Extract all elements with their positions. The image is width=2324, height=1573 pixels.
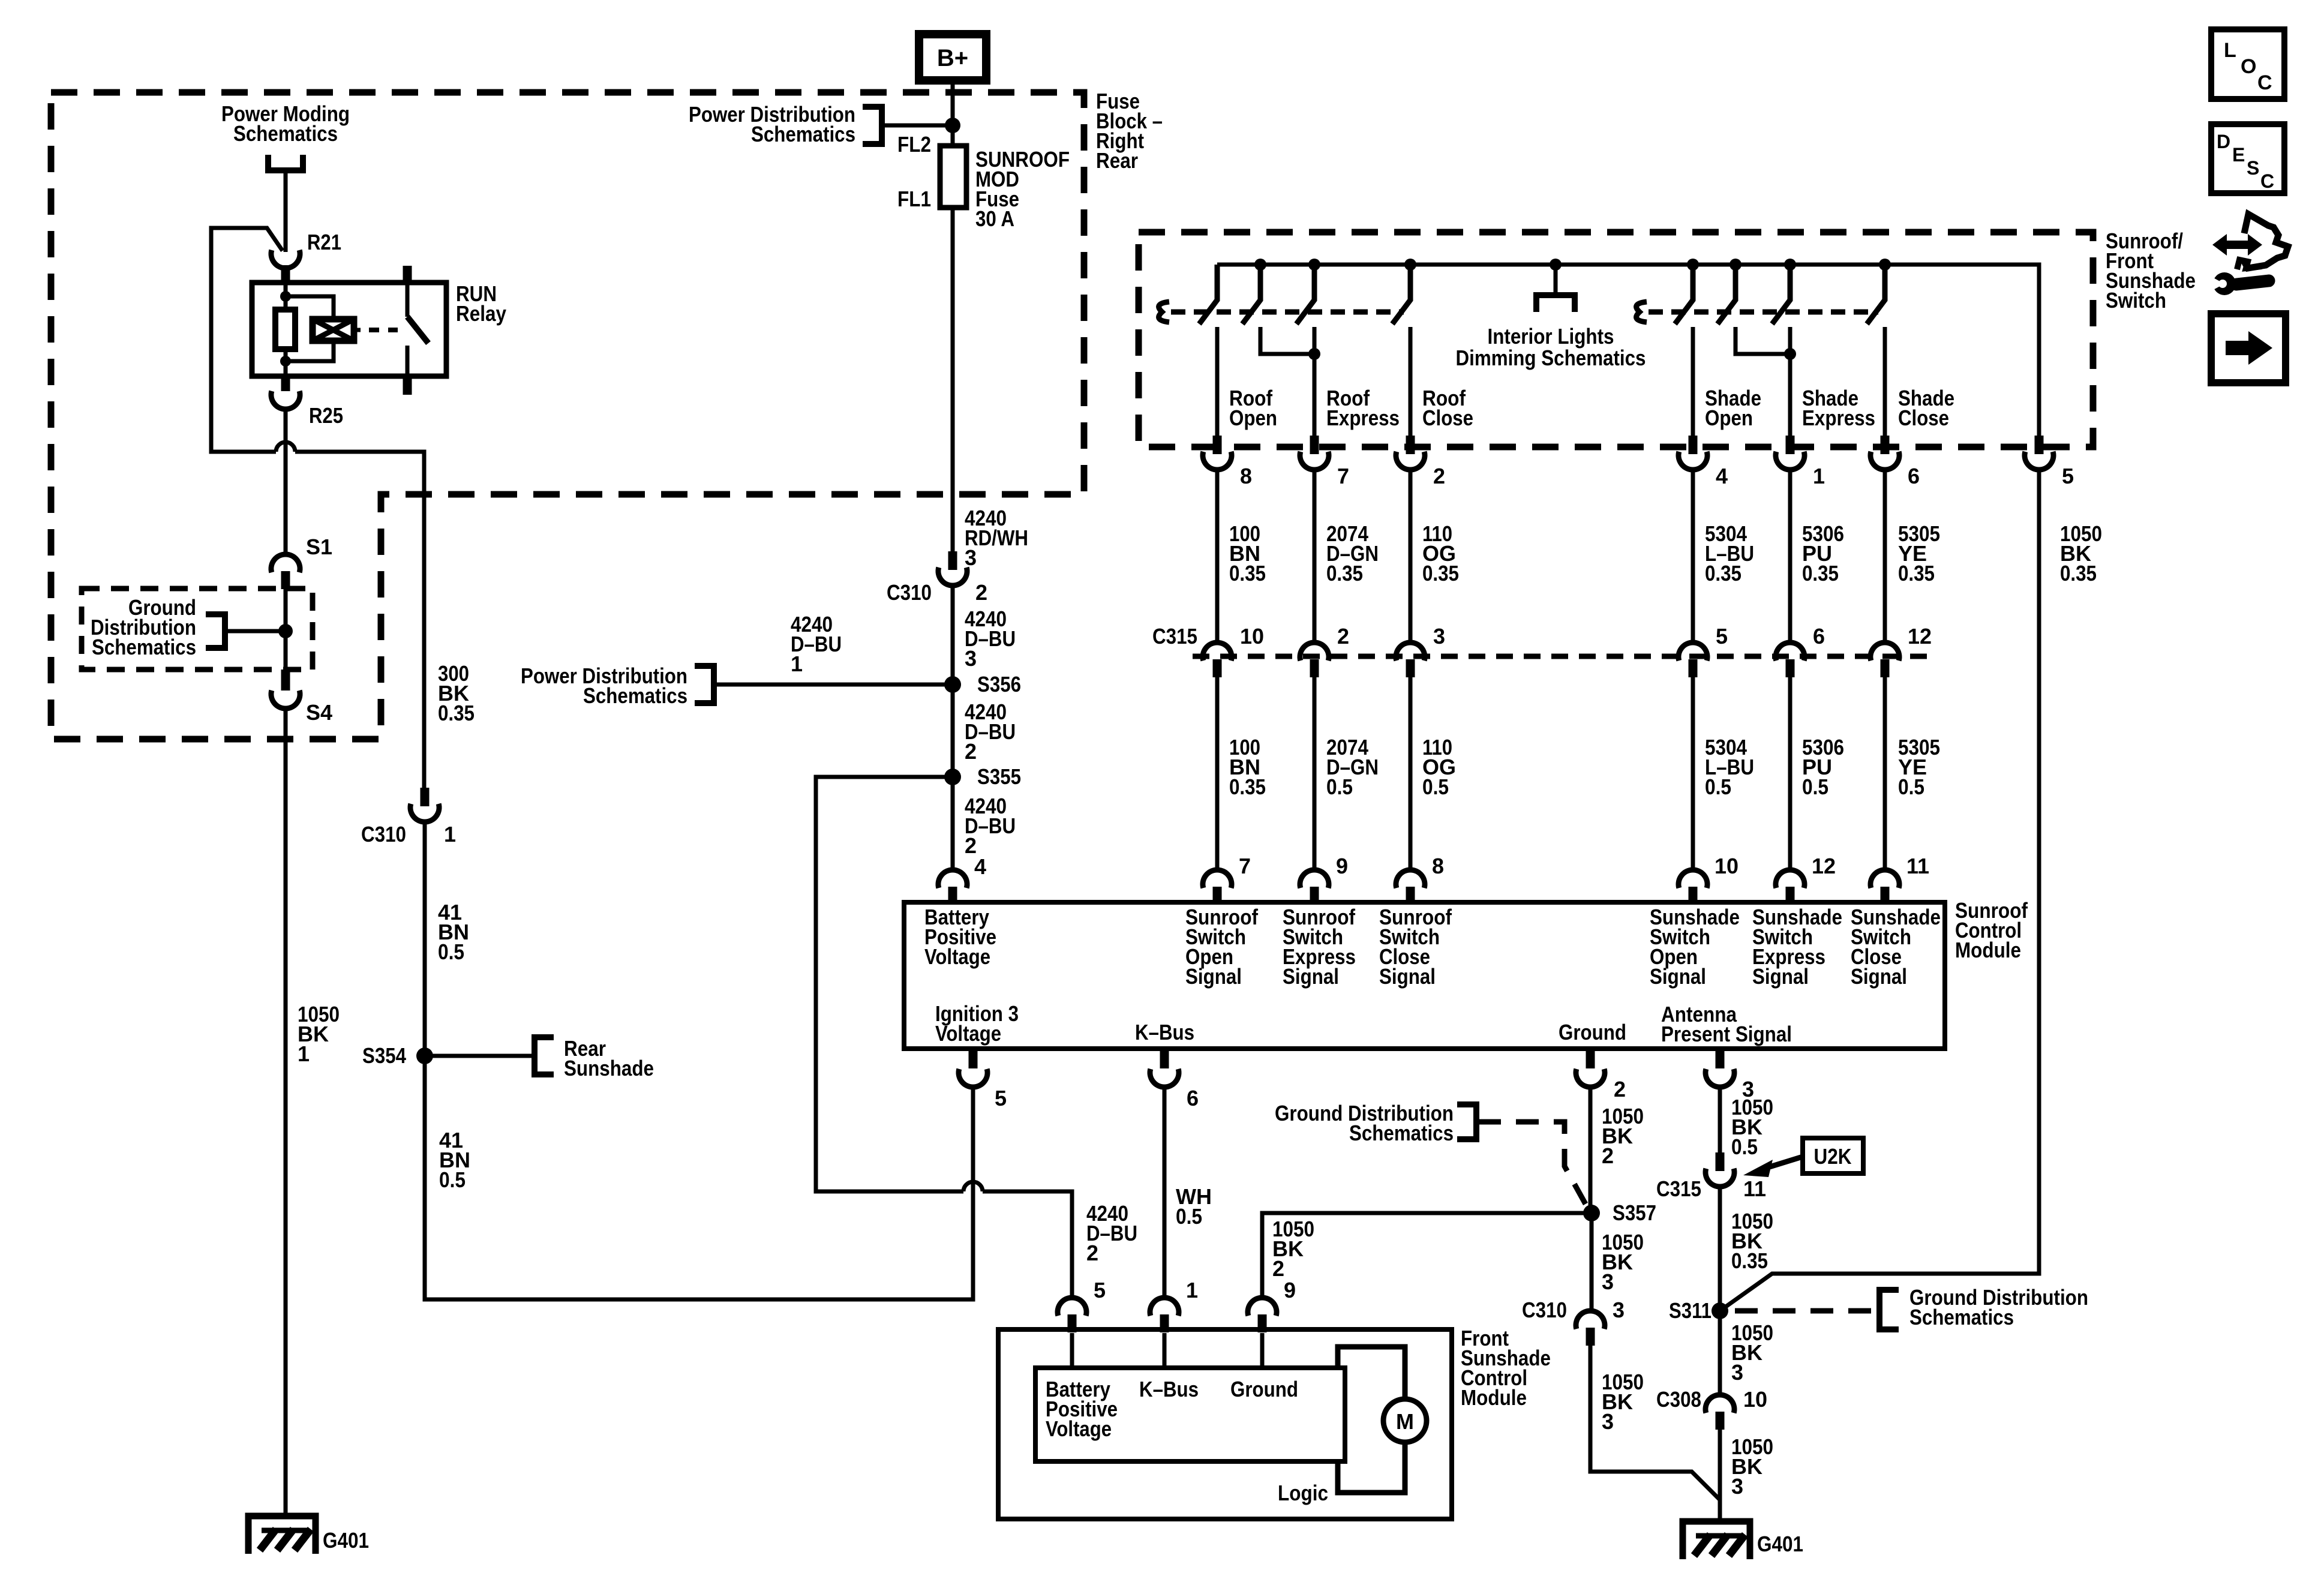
module pin label Sunshade Express <box>1752 905 1842 989</box>
wire label 2074 D–GN 0.5 (lower) <box>1326 735 1379 799</box>
svg-text:Schematics: Schematics <box>1349 1121 1454 1145</box>
svg-text:6: 6 <box>1908 464 1920 488</box>
svg-text:5: 5 <box>1094 1278 1106 1302</box>
svg-text:0.5: 0.5 <box>438 939 464 964</box>
switch position label Shade Close <box>1898 386 1954 430</box>
module pin 7 <box>1203 854 1251 905</box>
svg-text:7: 7 <box>1337 464 1349 488</box>
wire R25 to S1 <box>284 407 288 554</box>
module pin label Sunshade Close <box>1851 905 1941 989</box>
svg-text:10: 10 <box>1743 1387 1767 1412</box>
svg-text:Voltage: Voltage <box>924 944 990 969</box>
svg-text:11: 11 <box>1743 1176 1766 1201</box>
svg-text:0.35: 0.35 <box>438 701 475 725</box>
wire shade close contact down <box>1883 327 1887 436</box>
wire label 1050 BK 3 (left ground leg) <box>1602 1370 1644 1434</box>
roof switch contact dashed line <box>1171 310 1404 315</box>
wire switch pin 5 down right side <box>1720 471 2039 1311</box>
svg-text:C: C <box>2257 71 2272 94</box>
switch blade shade express B <box>1772 265 1790 324</box>
switch blade roof close <box>1392 265 1410 324</box>
connector C315 pin 2 <box>1300 624 1349 677</box>
svg-text:S356: S356 <box>977 672 1021 697</box>
wire label 300 BK 0.35 <box>438 661 475 725</box>
icon DESC box <box>2211 124 2284 193</box>
wire label 110 OG 0.35 <box>1422 521 1459 586</box>
wire roof open contact down <box>1215 327 1220 436</box>
wire switch to C315 at 2822 <box>1691 471 1695 643</box>
svg-text:K–Bus: K–Bus <box>1135 1020 1194 1044</box>
wire label WH 0.5 <box>1176 1184 1212 1229</box>
svg-text:S4: S4 <box>306 700 332 725</box>
svg-text:12: 12 <box>1908 624 1932 649</box>
icon component-view door with arrow and wrench <box>2209 214 2288 295</box>
wire label 4240 D-BU 1 <box>791 612 842 676</box>
svg-text:O: O <box>2241 55 2256 78</box>
wire Ground pin 2 to S357 <box>1589 1086 1593 1213</box>
wire label 1050 BK 2 (to front module) <box>1272 1217 1314 1281</box>
splice S355 <box>944 764 1021 789</box>
wire label 1050 BK 3 (below S311) <box>1731 1320 1773 1385</box>
switch pin 5 <box>2025 436 2074 488</box>
relay pin R25 <box>271 376 343 428</box>
wire shade express jog <box>1736 327 1790 354</box>
roof contact line harness connector squiggle <box>1159 302 1169 322</box>
wire label 5305 YE 0.35 <box>1898 521 1940 586</box>
svg-text:1: 1 <box>1186 1278 1198 1302</box>
Ground Distribution Schematics reference (middle) <box>1275 1101 1589 1209</box>
svg-text:Signal: Signal <box>1185 964 1242 989</box>
front module internal pin wires <box>1072 1333 1262 1368</box>
module pin label Antenna Present Signal <box>1661 1002 1792 1046</box>
RUN Relay label <box>456 281 506 326</box>
module pin 11 <box>1870 854 1929 905</box>
wire S311 to C308 <box>1718 1311 1722 1396</box>
svg-text:3: 3 <box>965 545 977 570</box>
wire S357 to C310 pin 3 <box>1590 1213 1594 1312</box>
relay switch fixed contacts <box>403 266 412 395</box>
Power Distribution Schematics reference (middle) <box>521 664 953 708</box>
svg-text:0.35: 0.35 <box>1898 561 1935 586</box>
Ground Distribution Schematics reference (left) <box>91 595 286 659</box>
svg-text:Sunshade: Sunshade <box>564 1056 654 1080</box>
svg-text:10: 10 <box>1240 624 1264 649</box>
Sunroof Control Module label <box>1955 898 2028 962</box>
wire from Power Moding reference to relay R21 <box>284 170 288 252</box>
svg-text:Ground: Ground <box>1230 1377 1298 1401</box>
svg-text:0.5: 0.5 <box>1705 775 1731 799</box>
svg-text:9: 9 <box>1336 854 1348 878</box>
wire label 2074 D–GN 0.35 <box>1326 521 1379 586</box>
svg-text:Express: Express <box>1802 406 1875 430</box>
svg-text:10: 10 <box>1715 854 1739 878</box>
wire roof express jog <box>1260 327 1314 354</box>
module Sunroof Control Module box <box>904 902 1945 1049</box>
svg-text:0.35: 0.35 <box>1326 561 1363 586</box>
connector C315 pin 11 <box>1656 1152 1766 1201</box>
wire label 4240 D-BU 3 <box>965 607 1016 671</box>
wire switch to C315 at 2984 <box>1788 471 1792 643</box>
svg-text:1: 1 <box>1813 464 1825 488</box>
relay node bottom <box>280 356 291 367</box>
power node B+ <box>919 34 986 80</box>
connector C308 pin 10 <box>1656 1387 1767 1430</box>
svg-text:C315: C315 <box>1656 1176 1701 1201</box>
svg-text:9: 9 <box>1284 1278 1296 1302</box>
svg-text:Express: Express <box>1326 406 1400 430</box>
wire label 41 BN 0.5 <box>438 900 469 964</box>
svg-text:Signal: Signal <box>1283 964 1339 989</box>
svg-text:Voltage: Voltage <box>935 1021 1001 1046</box>
Sunroof/Front Sunshade Switch label <box>2106 229 2196 313</box>
wire S354 to ignition 3 voltage pin 5 <box>425 1056 973 1299</box>
node bus 2593 <box>1550 259 1562 271</box>
svg-text:C310: C310 <box>361 822 406 846</box>
wire C308 to G401 <box>1718 1429 1722 1518</box>
svg-text:0.35: 0.35 <box>1705 561 1742 586</box>
svg-text:30 A: 30 A <box>975 206 1014 231</box>
switch blade shade open <box>1675 265 1693 324</box>
connector C315 pin 3 <box>1396 624 1445 677</box>
node ground distribution tap <box>278 624 293 638</box>
splice S357 <box>1583 1200 1656 1225</box>
front module logic box <box>1035 1368 1345 1461</box>
connector C315 pin 5 <box>1679 624 1728 677</box>
wire switch to C315 at 2191 <box>1313 471 1317 643</box>
wire hop to front module pin 5 <box>983 1191 1072 1299</box>
svg-text:5: 5 <box>2062 464 2074 488</box>
wire label 41 BN 0.5 (second) <box>439 1128 470 1192</box>
wire C315 to module at 2984 <box>1788 677 1792 871</box>
fuse terminal label FL2 <box>897 132 931 157</box>
relay switch blade <box>407 317 428 343</box>
svg-text:2: 2 <box>1337 624 1349 649</box>
wire fuse to C310 pin 2 <box>951 208 955 551</box>
svg-text:4: 4 <box>974 854 986 879</box>
wire label 1050 BK 0.35 (antenna ground) <box>1731 1209 1773 1273</box>
logic label Ground <box>1230 1377 1298 1401</box>
wire hop over pin5 wire at (1622,1986) <box>963 1182 983 1191</box>
connector C310 pin 2 <box>887 551 987 605</box>
svg-text:0.5: 0.5 <box>1898 775 1924 799</box>
module pin 9 <box>1300 854 1348 905</box>
svg-text:Relay: Relay <box>456 301 506 326</box>
Rear Sunshade reference <box>425 1036 654 1080</box>
switch position label Roof Open <box>1229 386 1277 430</box>
switch position label Shade Express <box>1802 386 1875 430</box>
svg-text:Switch: Switch <box>2106 288 2166 313</box>
wire S4 to G401 <box>284 706 288 1513</box>
module pin label K-Bus <box>1135 1020 1194 1044</box>
svg-text:5: 5 <box>995 1086 1007 1110</box>
splice S356 <box>944 672 1021 697</box>
splice S4 <box>271 670 332 725</box>
svg-text:Open: Open <box>1229 406 1277 430</box>
splice S1 <box>271 535 332 589</box>
module pin 10 <box>1679 854 1739 905</box>
svg-text:3: 3 <box>1433 624 1445 649</box>
svg-text:Schematics: Schematics <box>233 121 338 146</box>
switch position label Roof Express <box>1326 386 1400 430</box>
wire S1 to S4 <box>284 589 288 671</box>
svg-text:S354: S354 <box>362 1043 406 1068</box>
svg-text:G401: G401 <box>1757 1532 1803 1556</box>
svg-text:C308: C308 <box>1656 1387 1701 1412</box>
module pin 5 (Ignition 3 Voltage) <box>959 1049 1007 1110</box>
node bus 2101 <box>1254 259 1266 271</box>
fuse block / power moding dashed boundary <box>51 92 1084 739</box>
node roof express jog <box>1308 348 1320 360</box>
svg-text:2: 2 <box>1272 1256 1284 1281</box>
wire S356 to S355 <box>951 685 955 777</box>
node bus 2893 <box>1730 259 1742 271</box>
logic label Logic <box>1278 1481 1328 1505</box>
svg-text:FL2: FL2 <box>897 132 931 157</box>
module pin 4 <box>938 854 986 905</box>
svg-text:Close: Close <box>1898 406 1949 430</box>
wire C310-1 to S354 <box>423 821 427 1056</box>
switch position label Roof Close <box>1422 386 1473 430</box>
svg-text:Signal: Signal <box>1379 964 1436 989</box>
svg-text:Schematics: Schematics <box>1909 1305 2014 1329</box>
node bus 2191 <box>1308 259 1320 271</box>
node bus 2351 <box>1404 259 1416 271</box>
wire roof express contact down <box>1313 327 1317 436</box>
wire label 4240 D-BU 2 (to front module) <box>1086 1201 1137 1265</box>
wire S355 branch to front module pin 5 <box>816 777 963 1191</box>
svg-text:5: 5 <box>1716 624 1728 649</box>
svg-text:6: 6 <box>1187 1086 1199 1110</box>
sunroof/front sunshade switch dashed box <box>1139 232 2093 447</box>
wire label 1050 BK 1 <box>298 1002 340 1066</box>
wire C315 to module at 2351 <box>1409 677 1413 871</box>
relay node top <box>280 291 291 302</box>
svg-text:S311: S311 <box>1669 1298 1712 1323</box>
connector C310 pin 1 <box>361 788 456 846</box>
svg-text:U2K: U2K <box>1814 1144 1852 1169</box>
node bus 2822 <box>1687 259 1699 271</box>
svg-text:Voltage: Voltage <box>1046 1416 1112 1441</box>
svg-text:Signal: Signal <box>1752 964 1809 989</box>
switch pin 8 <box>1203 436 1252 488</box>
module pin label Sunroof Close <box>1379 905 1452 989</box>
wire label 5304 L–BU 0.5 (lower) <box>1705 735 1754 799</box>
switch blade shade express A <box>1718 265 1736 324</box>
svg-text:E: E <box>2232 144 2245 166</box>
svg-text:S1: S1 <box>306 535 332 559</box>
switch blade roof open <box>1199 265 1217 324</box>
svg-text:2: 2 <box>1602 1143 1614 1168</box>
wire switch to C315 at 2029 <box>1215 471 1220 643</box>
wire label 1050 BK 3 (below S357) <box>1602 1230 1644 1294</box>
svg-text:0.5: 0.5 <box>1326 775 1353 799</box>
wire B+ to fuse <box>951 80 955 146</box>
svg-text:Module: Module <box>1955 938 2021 962</box>
node S? power distribution tap <box>945 118 960 133</box>
connector C315 dashed line <box>1193 654 1938 659</box>
icon next-page arrow box <box>2211 314 2286 383</box>
module pin 3 (Antenna Present Signal) <box>1706 1049 1754 1101</box>
svg-text:12: 12 <box>1812 854 1836 878</box>
wire from hop to C310 pin 1 <box>295 452 424 788</box>
svg-text:8: 8 <box>1240 464 1252 488</box>
svg-text:6: 6 <box>1813 624 1825 649</box>
connector C315 pin 12 <box>1870 624 1932 677</box>
shade contact line harness connector squiggle <box>1637 302 1647 322</box>
module pin label Battery Positive Voltage <box>924 905 996 969</box>
svg-text:3: 3 <box>1731 1474 1743 1499</box>
svg-text:Present Signal: Present Signal <box>1661 1022 1792 1046</box>
wire label 100 BN 0.35 <box>1229 521 1266 586</box>
module pin label Sunroof Open <box>1185 905 1259 989</box>
module pin label Ground <box>1559 1020 1626 1044</box>
relay coil circuit wires <box>286 283 334 376</box>
wire shade open contact down <box>1691 327 1695 436</box>
wire label 1050 BK 0.35 <box>2060 521 2102 586</box>
connector C315 pin 6 <box>1776 624 1825 677</box>
switch pin 7 <box>1300 436 1349 488</box>
wire label 4240 D-BU 2 <box>965 700 1016 764</box>
node bus 3142 <box>1879 259 1891 271</box>
svg-text:Schematics: Schematics <box>92 635 196 659</box>
ground G401 (right) <box>1683 1521 1803 1559</box>
wire C315 to module at 2191 <box>1313 677 1317 871</box>
svg-text:0.5: 0.5 <box>1422 775 1449 799</box>
wire label 1050 BK 3 (to ground) <box>1731 1434 1773 1499</box>
relay RUN box <box>252 283 446 376</box>
wire switch to C315 at 2351 <box>1409 471 1413 643</box>
front module pin 1 <box>1150 1278 1198 1332</box>
fuse SUNROOF MOD 30A <box>940 146 966 208</box>
switch blade roof express B <box>1296 265 1314 324</box>
wire C315 to module at 3142 <box>1883 677 1887 871</box>
Interior Lights Dimming Schematics reference <box>1456 265 1646 370</box>
wire label 4240 RD/WH 3 <box>965 506 1028 570</box>
module pin 12 <box>1776 854 1836 905</box>
svg-text:Schematics: Schematics <box>583 683 687 708</box>
ground distribution dashed box <box>82 589 313 670</box>
wire label 1050 BK 0.5 <box>1731 1095 1773 1159</box>
wire label 100 BN 0.35 (lower) <box>1229 735 1266 799</box>
svg-text:2: 2 <box>965 739 977 764</box>
svg-text:3: 3 <box>1602 1269 1614 1294</box>
svg-text:0.5: 0.5 <box>1731 1134 1758 1159</box>
module pin label Sunshade Open <box>1650 905 1740 989</box>
switch pin 4 <box>1679 436 1728 488</box>
svg-text:0.35: 0.35 <box>1731 1248 1768 1273</box>
svg-text:0.35: 0.35 <box>2060 561 2097 586</box>
svg-text:L: L <box>2224 39 2236 62</box>
motor M <box>1383 1399 1427 1442</box>
svg-text:1: 1 <box>444 822 456 846</box>
svg-text:7: 7 <box>1239 854 1251 878</box>
svg-text:1: 1 <box>298 1041 310 1066</box>
svg-text:R25: R25 <box>309 403 343 428</box>
wire S357 to front module pin 9 <box>1262 1213 1592 1299</box>
Front Sunshade Control Module label <box>1461 1326 1551 1410</box>
wire K-Bus to front module pin 1 <box>1163 1086 1167 1299</box>
svg-text:C: C <box>2260 170 2274 192</box>
svg-text:3: 3 <box>1731 1360 1743 1385</box>
wire label 1050 BK 2 (module ground) <box>1602 1104 1644 1168</box>
svg-text:S355: S355 <box>977 764 1021 789</box>
svg-text:S357: S357 <box>1613 1200 1656 1225</box>
svg-text:8: 8 <box>1432 854 1444 878</box>
svg-text:0.35: 0.35 <box>1802 561 1839 586</box>
svg-text:K–Bus: K–Bus <box>1139 1377 1199 1401</box>
svg-text:2: 2 <box>975 580 987 605</box>
fuse value label <box>975 147 1070 231</box>
wire C315 to module at 2822 <box>1691 677 1695 871</box>
wire motor to logic (bottom) <box>1338 1442 1405 1493</box>
wire hop over vertical at (476,753) <box>276 442 295 452</box>
wire bypass branch from R21 node to Ignition feed <box>211 228 283 452</box>
switch pin 6 <box>1870 436 1920 488</box>
connector C315 label <box>1152 624 1197 649</box>
logic label Battery Positive Voltage <box>1046 1377 1118 1441</box>
svg-text:C310: C310 <box>1522 1298 1567 1322</box>
svg-text:1: 1 <box>791 652 803 676</box>
wire roof close contact down <box>1409 327 1413 436</box>
switch blade roof express A <box>1242 265 1260 324</box>
relay resistor <box>275 310 295 349</box>
Power Distribution Schematics reference (top) <box>689 102 953 146</box>
svg-text:FL1: FL1 <box>897 187 931 211</box>
svg-text:0.5: 0.5 <box>439 1167 466 1192</box>
ground G401 (left) <box>248 1516 369 1554</box>
switch pin 1 <box>1776 436 1825 488</box>
wire S355 to module pin 4 <box>951 777 955 871</box>
relay coil <box>313 319 354 341</box>
front module pin 9 <box>1248 1278 1296 1332</box>
svg-text:Dimming Schematics: Dimming Schematics <box>1456 346 1646 370</box>
front module pin 5 <box>1058 1278 1106 1332</box>
svg-text:S: S <box>2247 157 2259 179</box>
wire label 110 OG 0.5 (lower) <box>1422 735 1456 799</box>
svg-text:Schematics: Schematics <box>751 122 855 146</box>
wire label 5304 L–BU 0.35 <box>1705 521 1754 586</box>
wire switch to C315 at 3142 <box>1883 471 1887 643</box>
svg-text:3: 3 <box>1613 1298 1625 1322</box>
node shade express jog <box>1784 348 1796 360</box>
svg-text:C315: C315 <box>1152 624 1197 649</box>
svg-text:Close: Close <box>1422 406 1473 430</box>
wire label 5306 PU 0.5 (lower) <box>1802 735 1844 799</box>
svg-text:Interior Lights: Interior Lights <box>1488 324 1614 349</box>
Fuse Block - Right Rear label <box>1096 89 1163 173</box>
wire C315-11 to S311 <box>1718 1186 1722 1311</box>
svg-text:Open: Open <box>1705 406 1753 430</box>
svg-text:0.35: 0.35 <box>1229 775 1266 799</box>
Power Moding Schematics label <box>221 101 350 170</box>
wire label 4240 D-BU 2 (second) <box>965 794 1016 858</box>
connector C315 pin 10 <box>1203 624 1264 677</box>
wire Antenna pin 3 to C315-11 <box>1718 1086 1722 1152</box>
Ground Distribution Schematics reference (right) <box>1735 1285 2088 1329</box>
svg-text:Signal: Signal <box>1851 964 1907 989</box>
module pin 2 (Ground) <box>1576 1049 1626 1101</box>
svg-text:Logic: Logic <box>1278 1481 1328 1505</box>
splice S311 <box>1669 1298 1728 1323</box>
svg-text:3: 3 <box>1602 1409 1614 1434</box>
svg-text:Rear: Rear <box>1096 148 1138 173</box>
svg-text:0.5: 0.5 <box>1176 1204 1202 1229</box>
wire C310-2 to S356 <box>951 585 955 685</box>
node bus 2984 <box>1784 259 1796 271</box>
relay coil actuating dashed link <box>354 328 398 332</box>
logic label K-Bus <box>1139 1377 1199 1401</box>
relay pin R21 <box>271 230 341 283</box>
